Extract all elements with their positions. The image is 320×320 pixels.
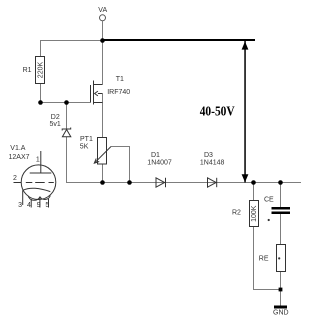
svg-text:4: 4: [27, 202, 31, 209]
svg-text:9: 9: [37, 202, 41, 209]
svg-text:3: 3: [18, 202, 22, 209]
svg-text:CE: CE: [264, 196, 274, 203]
svg-text:V1.A: V1.A: [10, 145, 26, 152]
svg-text:40-50V: 40-50V: [200, 105, 235, 120]
svg-text:D1: D1: [151, 152, 160, 159]
svg-text:2: 2: [13, 175, 17, 182]
svg-text:PT1: PT1: [80, 136, 93, 143]
svg-text:100K: 100K: [251, 205, 258, 222]
svg-text:VA: VA: [98, 7, 107, 14]
svg-text:D2: D2: [51, 114, 60, 121]
svg-text:5v1: 5v1: [50, 121, 61, 128]
svg-text:220K: 220K: [37, 62, 44, 79]
svg-text:IRF740: IRF740: [107, 89, 130, 96]
svg-text:12AX7: 12AX7: [9, 154, 30, 161]
svg-text:1: 1: [36, 156, 40, 163]
svg-text:D3: D3: [204, 152, 213, 159]
svg-text:1N4007: 1N4007: [147, 160, 172, 167]
svg-text:T1: T1: [116, 76, 124, 83]
svg-text:5K: 5K: [80, 143, 89, 150]
svg-text:R2: R2: [232, 210, 241, 217]
svg-text:GND: GND: [273, 310, 289, 317]
svg-text:1N4148: 1N4148: [200, 160, 225, 167]
svg-text:R1: R1: [23, 67, 32, 74]
svg-text:RE: RE: [259, 256, 269, 263]
svg-text:5: 5: [45, 202, 49, 209]
